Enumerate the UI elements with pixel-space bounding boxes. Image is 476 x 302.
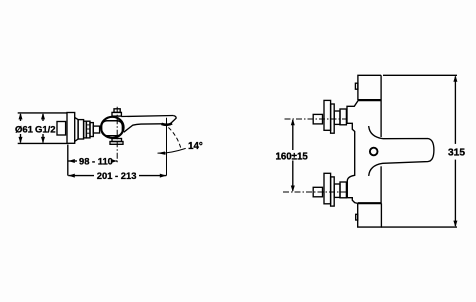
svg-text:14°: 14° (188, 141, 203, 152)
svg-text:Ø61: Ø61 (15, 124, 34, 135)
svg-text:160±15: 160±15 (276, 152, 309, 163)
svg-text:201 - 213: 201 - 213 (97, 170, 137, 181)
svg-text:315: 315 (448, 148, 465, 159)
svg-text:G1/2: G1/2 (35, 124, 56, 135)
svg-text:98 - 110: 98 - 110 (79, 156, 113, 167)
